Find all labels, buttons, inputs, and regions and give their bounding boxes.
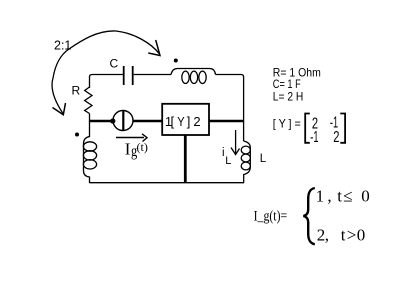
wire: capacitor to top inductor	[134, 74, 171, 76]
svg-text:i: i	[222, 147, 225, 159]
wire: top inductor to right rail, down right side	[216, 75, 244, 142]
iL arrow	[235, 130, 237, 153]
top coupled inductor winding	[171, 69, 216, 84]
svg-text:I: I	[125, 140, 131, 159]
svg-text:1[Y]2: 1[Y]2	[165, 114, 201, 129]
polarity dot near left inductor	[75, 133, 79, 137]
polarity dot near top inductor	[174, 59, 178, 63]
junction blob left of source	[110, 118, 115, 123]
current source Ig circle	[113, 111, 133, 131]
bottom rail wire	[90, 182, 245, 184]
svg-text:C: C	[110, 57, 119, 71]
svg-text:L: L	[260, 153, 267, 165]
wire: left branch top corner to capacitor	[90, 75, 124, 89]
wire: resistor bottom to node	[89, 114, 91, 123]
Ig arrow	[116, 137, 144, 139]
svg-text:[ Y ] =: [ Y ] =	[273, 116, 301, 130]
svg-text:L: L	[225, 155, 231, 167]
piecewise brace	[303, 188, 314, 244]
thick node wire: left node to box	[90, 120, 163, 123]
iL arrow head	[231, 148, 240, 155]
coupling arrow head (upper-right end)	[148, 40, 160, 56]
left coupled inductor winding	[83, 121, 96, 183]
svg-text:R: R	[72, 84, 81, 98]
coupling arrow arc	[52, 31, 159, 114]
thick wire: box to right rail	[209, 120, 244, 123]
svg-text:-1: -1	[310, 129, 318, 146]
resistor R	[85, 87, 92, 114]
thick lead: box bottom to bottom rail	[184, 135, 187, 183]
svg-text:I_g(t)=: I_g(t)=	[254, 208, 288, 224]
matrix right bracket	[340, 114, 345, 143]
capacitor C plates	[124, 66, 133, 85]
svg-text:2:1: 2:1	[54, 38, 71, 52]
svg-text:1,t≤0: 1,t≤0	[316, 186, 370, 205]
svg-text:2: 2	[333, 129, 339, 146]
svg-text:L= 2 H: L= 2 H	[273, 90, 304, 104]
matrix left bracket	[305, 114, 310, 143]
svg-text:2,t>0: 2,t>0	[317, 226, 366, 245]
two-port box 1[Y]2	[162, 104, 209, 135]
coupling arrow head (lower-left end)	[53, 103, 66, 115]
current source bar	[122, 111, 124, 131]
right inductor L winding	[241, 141, 250, 183]
Ig arrow head	[142, 134, 147, 142]
svg-text:(t): (t)	[137, 140, 148, 154]
